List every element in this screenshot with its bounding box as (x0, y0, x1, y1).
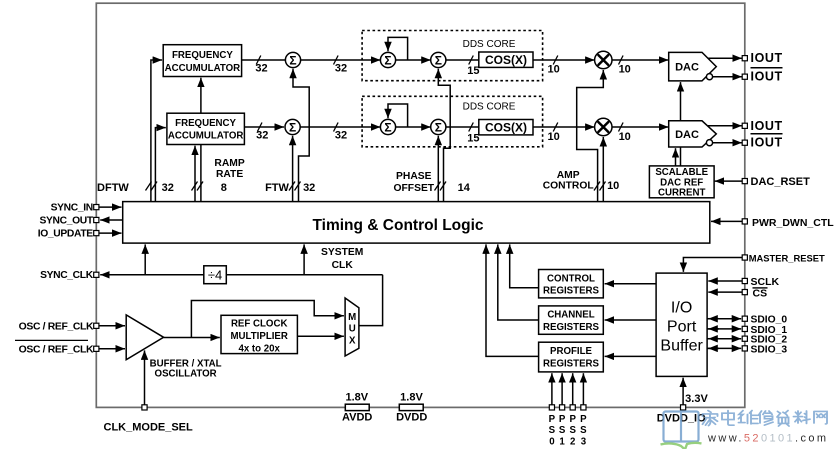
svg-text:OSC / REF_CLK: OSC / REF_CLK (19, 344, 94, 355)
svg-text:S: S (580, 425, 587, 436)
svg-text:I/O: I/O (671, 300, 692, 317)
svg-text:Port: Port (667, 319, 697, 336)
svg-text:P: P (559, 414, 566, 425)
svg-text:32: 32 (255, 62, 267, 74)
svg-text:1: 1 (559, 436, 565, 447)
svg-text:IO_UPDATE: IO_UPDATE (38, 229, 93, 240)
svg-text:10: 10 (607, 180, 619, 192)
svg-text:CS: CS (753, 287, 768, 299)
svg-text:32: 32 (303, 182, 315, 194)
svg-text:RATE: RATE (216, 169, 243, 180)
svg-text:AMP: AMP (557, 170, 580, 181)
svg-text:10: 10 (619, 64, 631, 76)
svg-text:U: U (349, 323, 356, 334)
svg-text:PROFILE: PROFILE (550, 346, 593, 357)
svg-text:SCLK: SCLK (751, 276, 780, 288)
svg-text:OFFSET: OFFSET (393, 183, 434, 194)
svg-text:SYSTEM: SYSTEM (321, 247, 363, 258)
svg-text:10: 10 (547, 131, 559, 143)
svg-text:www.520101.com: www.520101.com (707, 432, 828, 444)
svg-text:CONTROL: CONTROL (547, 273, 595, 284)
svg-text:10: 10 (619, 131, 631, 143)
svg-text:PWR_DWN_CTL: PWR_DWN_CTL (752, 217, 834, 229)
svg-text:32: 32 (256, 130, 268, 142)
svg-text:32: 32 (335, 62, 347, 74)
svg-text:P: P (569, 414, 576, 425)
svg-text:DDS CORE: DDS CORE (463, 39, 516, 50)
svg-text:S: S (559, 425, 566, 436)
svg-text:ACCUMULATOR: ACCUMULATOR (165, 63, 241, 74)
svg-text:CLK_MODE_SEL: CLK_MODE_SEL (104, 422, 194, 434)
svg-text:CURRENT: CURRENT (658, 188, 705, 199)
svg-text:CHANNEL: CHANNEL (547, 310, 594, 321)
svg-text:REGISTERS: REGISTERS (543, 322, 600, 333)
svg-text:RAMP: RAMP (214, 158, 244, 169)
svg-text:MULTIPLIER: MULTIPLIER (230, 331, 287, 342)
svg-text:REF CLOCK: REF CLOCK (231, 318, 288, 329)
svg-text:Σ: Σ (384, 120, 391, 134)
svg-text:1.8V: 1.8V (345, 391, 368, 403)
svg-text:IOUT: IOUT (751, 51, 783, 65)
svg-text:Timing & Control Logic: Timing & Control Logic (312, 217, 483, 234)
svg-text:OSC / REF_CLK: OSC / REF_CLK (19, 321, 94, 332)
svg-text:SYNC_IN: SYNC_IN (51, 203, 93, 214)
svg-text:COS(X): COS(X) (485, 53, 527, 67)
svg-text:AVDD: AVDD (342, 412, 372, 424)
svg-text:COS(X): COS(X) (485, 121, 527, 135)
svg-text:S: S (569, 425, 576, 436)
svg-text:IOUT: IOUT (751, 136, 783, 150)
svg-text:Σ: Σ (289, 120, 296, 134)
svg-text:DAC: DAC (675, 62, 699, 74)
svg-text:DDS CORE: DDS CORE (463, 101, 516, 112)
svg-text:32: 32 (335, 130, 347, 142)
svg-text:Σ: Σ (384, 53, 391, 67)
svg-text:DVDD: DVDD (396, 412, 427, 424)
svg-text:DAC: DAC (675, 129, 699, 141)
svg-text:S: S (549, 425, 556, 436)
svg-text:CLK: CLK (332, 260, 354, 271)
svg-text:FREQUENCY: FREQUENCY (175, 118, 236, 129)
svg-text:2: 2 (570, 436, 575, 447)
svg-text:Buffer: Buffer (660, 338, 703, 355)
svg-text:P: P (549, 414, 556, 425)
svg-text:÷4: ÷4 (208, 268, 222, 283)
svg-text:P: P (580, 414, 587, 425)
svg-text:Σ: Σ (435, 53, 442, 67)
svg-text:SYNC_CLK: SYNC_CLK (40, 270, 94, 281)
svg-text:FTW: FTW (265, 182, 289, 194)
svg-text:ACCUMULATOR: ACCUMULATOR (168, 130, 244, 141)
svg-text:15: 15 (467, 65, 479, 77)
svg-text:REGISTERS: REGISTERS (543, 286, 600, 297)
svg-text:IOUT: IOUT (751, 70, 783, 84)
svg-text:DAC_RSET: DAC_RSET (751, 176, 811, 188)
svg-text:8: 8 (221, 182, 227, 194)
svg-text:FREQUENCY: FREQUENCY (172, 50, 233, 61)
svg-text:4x to 20x: 4x to 20x (238, 343, 280, 354)
svg-text:3: 3 (581, 436, 587, 447)
svg-text:Σ: Σ (435, 120, 442, 134)
svg-text:REGISTERS: REGISTERS (543, 358, 600, 369)
svg-text:X: X (349, 335, 356, 346)
svg-text:1.8V: 1.8V (400, 391, 423, 403)
svg-text:OSCILLATOR: OSCILLATOR (155, 368, 217, 379)
svg-text:14: 14 (458, 182, 471, 194)
svg-text:IOUT: IOUT (751, 119, 783, 133)
svg-text:DFTW: DFTW (97, 182, 129, 194)
svg-text:32: 32 (162, 182, 174, 194)
svg-text:SYNC_OUT: SYNC_OUT (40, 216, 94, 227)
svg-text:15: 15 (467, 132, 479, 144)
svg-text:CONTROL: CONTROL (543, 181, 594, 192)
svg-text:Σ: Σ (289, 53, 296, 67)
svg-text:3.3V: 3.3V (685, 393, 708, 405)
svg-text:PHASE: PHASE (396, 171, 432, 182)
svg-text:SDIO_3: SDIO_3 (751, 344, 788, 355)
svg-text:0: 0 (549, 436, 554, 447)
svg-text:MASTER_RESET: MASTER_RESET (749, 252, 825, 263)
svg-text:10: 10 (547, 64, 559, 76)
svg-text:M: M (348, 312, 356, 323)
